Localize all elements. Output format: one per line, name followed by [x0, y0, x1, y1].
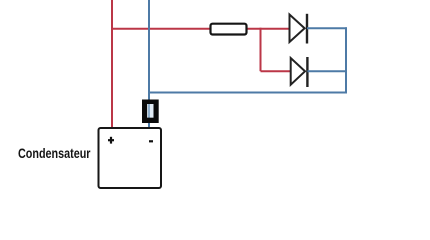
- diode D2 (bottom) cathode bar: [306, 57, 308, 87]
- diode D1 (top) triangle: [290, 15, 305, 43]
- diode D1 (top) cathode bar: [306, 14, 308, 44]
- diode D2 (bottom) triangle: [291, 58, 305, 85]
- wire: blue from top diode cathode to right bus: [307, 27, 347, 29]
- capacitor + terminal mark: [110, 137, 112, 144]
- fuse inner window tint: [147, 104, 153, 118]
- resistor (series resistor on red line): [211, 24, 247, 35]
- wire: red horizontal to bottom diode anode: [261, 70, 292, 72]
- wire: red vertical from top edge to capacitor + terminal: [111, 0, 113, 128]
- capacitor - terminal mark: [149, 140, 153, 142]
- label: Condensateur: [18, 145, 90, 161]
- wire: blue vertical from top edge down to capacitor - terminal: [148, 0, 150, 128]
- wire: blue right vertical bus: [345, 27, 347, 93]
- wire: blue bottom horizontal return: [149, 92, 348, 94]
- wire: red horizontal from red vertical to resistor left lead: [111, 28, 211, 30]
- wire: blue from bottom diode cathode to right bus: [307, 70, 347, 72]
- fuse (black frame component on blue wire above capacitor): [142, 100, 159, 124]
- capacitor box: [99, 128, 162, 188]
- wire: red horizontal from resistor right lead to top diode anode: [246, 28, 290, 30]
- wire: red branch vertical at junction down to lower row: [260, 28, 262, 71]
